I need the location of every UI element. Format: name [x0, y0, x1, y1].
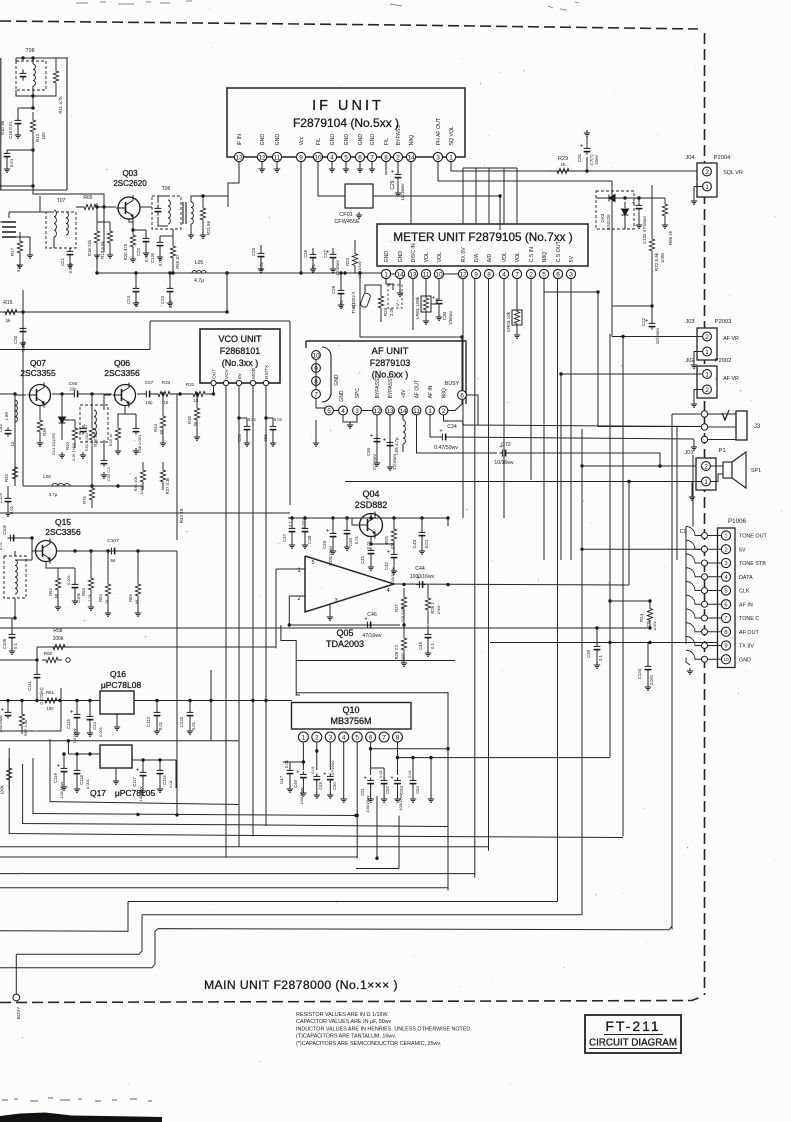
capacitor C29 10/16wv [395, 171, 402, 180]
svg-text:μPC78L05: μPC78L05 [115, 788, 156, 798]
svg-text:12: 12 [459, 271, 467, 278]
ground under C52 [381, 796, 387, 802]
svg-text:13: 13 [386, 408, 394, 415]
wire net step to H692 [281, 625, 300, 695]
svg-text:68: 68 [134, 599, 139, 604]
wire vertical 672 long [671, 414, 673, 930]
capacitor C136 0.01 [157, 239, 164, 248]
wire Q16 box left [60, 688, 62, 731]
ground under R20 [130, 256, 136, 262]
svg-text:C117: C117 [132, 776, 137, 786]
wire AF pin2 hook [448, 399, 462, 410]
wire [0, 393, 15, 395]
svg-text:R35 1k: R35 1k [108, 434, 113, 447]
svg-text:C47: C47 [279, 775, 284, 784]
wire vcc drop [226, 273, 228, 312]
svg-text:+: + [383, 438, 387, 444]
ground under C41 [368, 564, 374, 570]
svg-text:TDA2003: TDA2003 [326, 639, 364, 649]
wire IF pin10 to CF01 [318, 162, 345, 196]
resistor R76 [89, 480, 94, 508]
svg-text:A/D: A/D [487, 253, 493, 262]
node circle J3 ring [701, 424, 707, 430]
wire 377 stub [376, 796, 378, 860]
svg-text:GND: GND [339, 390, 345, 402]
svg-text:2SC3355: 2SC3355 [20, 368, 56, 378]
METER UNIT pin 6 [553, 269, 562, 278]
svg-text:8: 8 [384, 154, 388, 161]
svg-text:L06 4.7μ: L06 4.7μ [394, 437, 399, 455]
wire IF pin9 Vcc down [300, 162, 302, 273]
svg-text:L07: L07 [83, 424, 88, 432]
svg-text:C24: C24 [126, 295, 131, 304]
wire to J3 tip [672, 413, 701, 415]
resistor R45 1k [12, 460, 17, 486]
svg-text:1k: 1k [104, 600, 109, 604]
svg-text:13: 13 [235, 154, 243, 161]
potentiometer VR03 10k [512, 310, 522, 325]
wire J02 pin2 gnd [694, 390, 703, 402]
wire [39, 196, 41, 212]
wire C46 feedback row [289, 624, 400, 626]
svg-text:F2879104 (No.5xx ): F2879104 (No.5xx ) [293, 116, 399, 130]
ground under R55 [135, 610, 141, 616]
svg-text:L09: L09 [4, 412, 9, 420]
ground under C22q [143, 250, 149, 256]
svg-text:2SD882: 2SD882 [355, 500, 388, 510]
capacitor C54 0.01 [410, 777, 417, 786]
inductor in Q15 box [15, 560, 17, 594]
ground J3 [691, 444, 697, 450]
IF UNIT pin 14 [406, 152, 415, 161]
wire [33, 92, 56, 96]
ground under C132 [636, 222, 642, 228]
resistor R18 22k [94, 222, 99, 252]
Q10 pin 2 [312, 732, 322, 742]
svg-text:1/4W: 1/4W [652, 621, 657, 631]
ground under R18 [94, 252, 100, 258]
svg-text:R24: R24 [639, 613, 644, 622]
wire [104, 206, 116, 208]
svg-text:C31: C31 [577, 153, 582, 162]
wire [438, 307, 440, 314]
wire [386, 279, 393, 290]
svg-text:R30: R30 [187, 415, 192, 424]
svg-text:+: + [370, 434, 374, 440]
ground under C24 [133, 300, 139, 306]
wire [14, 598, 16, 618]
wire [91, 394, 93, 420]
wire [145, 244, 147, 250]
transformer core T08b [183, 202, 186, 224]
svg-text:Q04: Q04 [362, 489, 379, 499]
svg-text:11: 11 [423, 271, 430, 278]
ground under C54 [410, 796, 416, 802]
node circle P1006 pin 5 [702, 588, 708, 594]
svg-text:2: 2 [705, 334, 709, 341]
svg-text:C22: C22 [641, 317, 646, 326]
wire 486 rail [23, 485, 143, 487]
wire [380, 316, 382, 322]
svg-text:MOD: MOD [251, 367, 257, 379]
svg-text:2: 2 [704, 463, 708, 470]
capacitor C118 0.001 [74, 767, 81, 776]
svg-text:3: 3 [436, 154, 440, 161]
AF UNIT pin 5 [325, 406, 334, 415]
ground under C29 [395, 190, 401, 196]
svg-text:8: 8 [487, 271, 491, 278]
AF UNIT pin 1 [426, 406, 435, 415]
svg-text:C136: C136 [150, 252, 155, 263]
svg-text:R69 10: R69 10 [175, 255, 180, 269]
meter unit F2879105 box [377, 224, 588, 266]
wire vertical 582 long [581, 429, 583, 915]
wire [16, 236, 30, 238]
wire VCO outer box top [150, 320, 290, 322]
ground under C39 [330, 548, 336, 554]
wire [345, 162, 347, 166]
svg-text:C26: C26 [303, 249, 308, 258]
IF UNIT pin 9 [296, 152, 305, 161]
wire R72 top [651, 185, 653, 228]
wire H660 texture [296, 660, 455, 662]
vco unit F2868101 box [200, 329, 280, 383]
svg-text:C45: C45 [418, 641, 423, 650]
svg-text:R72 5.6k: R72 5.6k [654, 252, 659, 271]
svg-text:1/4W: 1/4W [139, 485, 144, 495]
ground under C27 [330, 266, 336, 272]
wire 349 rail [0, 349, 150, 351]
IF UNIT pin 4 [327, 152, 336, 161]
svg-text:N8Q: N8Q [442, 388, 448, 398]
svg-text:Q17: Q17 [90, 788, 106, 798]
connector J03/P2003 [697, 328, 717, 360]
P1006 pin 9 TX 8V [721, 641, 730, 650]
wire meter pin5 to J02 branch [544, 279, 598, 292]
diode DX3 1S3226 dashed box [596, 191, 634, 229]
ground under C25 [258, 266, 264, 272]
svg-text:+: + [439, 429, 443, 435]
svg-text:CLK: CLK [739, 589, 750, 595]
svg-text:1S3226: 1S3226 [606, 214, 611, 230]
wire Q04 emitter [370, 537, 372, 545]
wire left col [14, 395, 16, 486]
capacitor C37 0.1 [289, 525, 296, 534]
wire left 23 col [22, 312, 24, 486]
wire [103, 207, 105, 252]
capacitor C43 0.01 [419, 529, 426, 538]
capacitor C125 0.01 [5, 495, 12, 504]
P1006 pin 7 TONE C [721, 613, 730, 622]
capacitor C39b 0.1 [594, 643, 601, 652]
wire [191, 196, 203, 202]
AF UNIT pin 9 [312, 364, 321, 373]
node circle P1006 pin 3 [702, 560, 708, 566]
capacitor C40 0.01 [344, 527, 351, 536]
svg-text:R76: R76 [82, 495, 87, 503]
svg-text:R25: R25 [384, 535, 389, 543]
ground under R54 [105, 610, 111, 616]
resistor R24 27k 1/4W [647, 601, 652, 628]
wire [624, 215, 626, 229]
wire [80, 393, 112, 395]
wire vertical 612 AF VR [611, 181, 613, 337]
wire bus MOD down [252, 386, 254, 837]
capacitor C45 0.1 [425, 631, 432, 640]
capacitor C30 1/50wv [436, 297, 443, 306]
resistor R65 0 [76, 204, 104, 209]
wire Q06 base [104, 395, 111, 410]
ground J02 [691, 401, 697, 407]
transistor Q15 2SC3356 [34, 539, 57, 564]
svg-text:0.01: 0.01 [158, 721, 163, 730]
svg-text:C118: C118 [79, 774, 84, 784]
svg-text:Q05: Q05 [336, 628, 353, 638]
connector J04/P2004 [697, 163, 717, 197]
svg-text:VR01 100k: VR01 100k [415, 296, 420, 319]
svg-text:CIRCUIT DIAGRAM: CIRCUIT DIAGRAM [589, 1038, 677, 1049]
capacitor C44 1000/16wv [416, 581, 425, 588]
resistor R69 10 [170, 236, 175, 268]
wire [371, 162, 373, 166]
svg-text:R58: R58 [53, 628, 62, 634]
resistor R37 3.3k [160, 462, 165, 490]
inductor in T07 [54, 210, 56, 237]
ground under C39b [594, 662, 600, 668]
svg-text:R45: R45 [4, 473, 9, 481]
svg-text:C134: C134 [637, 668, 642, 679]
svg-text:4.7μ: 4.7μ [49, 492, 58, 497]
ground under C28 [338, 302, 344, 308]
scan artifact black wedge bottom left [0, 1113, 162, 1122]
svg-text:18: 18 [194, 398, 199, 403]
svg-text:BYPASS1: BYPASS1 [388, 376, 394, 399]
svg-text:12: 12 [373, 408, 381, 415]
svg-text:R26 1: R26 1 [430, 602, 435, 614]
wire [611, 202, 613, 229]
svg-text:4: 4 [341, 408, 345, 415]
wire Q15 base row [8, 537, 32, 539]
svg-text:DX3: DX3 [600, 213, 605, 222]
wire to J02 pin1b [561, 373, 703, 375]
svg-text:C50: C50 [332, 781, 337, 789]
wire T08b to IF pin13 path [203, 196, 228, 207]
svg-text:5: 5 [724, 589, 727, 595]
wire [664, 197, 666, 199]
ground under IF pin x=360 [357, 166, 363, 172]
svg-text:10/16wv: 10/16wv [400, 183, 405, 201]
wire bus H857 [0, 856, 357, 858]
svg-text:CAPACITOR VALUES ARE IN μF, 50: CAPACITOR VALUES ARE IN μF, 50wv [296, 1019, 392, 1025]
ground P1006 GND pin [687, 668, 693, 674]
METER UNIT pin 7 [512, 269, 521, 278]
ground under C50 [327, 792, 333, 798]
svg-text:0.022(er): 0.022(er) [39, 687, 44, 705]
ground under C118 [74, 786, 80, 792]
ground under C35 [387, 464, 393, 470]
ground under IF pin x=277 [274, 166, 280, 172]
svg-text:N8Q: N8Q [542, 252, 548, 263]
svg-text:+: + [57, 764, 61, 770]
Q10 pin 8 [393, 732, 403, 742]
svg-text:T08: T08 [26, 48, 35, 54]
capacitor C56 0.01 [244, 423, 251, 432]
wire Q17 box bottom [50, 741, 239, 805]
svg-text:2SC3356: 2SC3356 [45, 527, 81, 537]
svg-text:IF IN: IF IN [237, 134, 243, 145]
resistor R85 1k [662, 198, 667, 222]
RF transformer far-left [2, 222, 16, 237]
AF UNIT pin 7 [312, 390, 321, 399]
resistor R29 1k [548, 168, 578, 173]
wire [708, 590, 722, 592]
wire meter pin4 down [503, 279, 505, 518]
ground under C115 [74, 730, 80, 736]
svg-text:R87 3.3k: R87 3.3k [23, 720, 28, 736]
potentiometer VR01 100k [421, 296, 431, 312]
svg-text:VCO UNIT: VCO UNIT [218, 334, 262, 344]
wire bus 5V down (x557) [557, 279, 559, 902]
wire Q16 output rail [134, 700, 292, 702]
capacitor in T08b [155, 204, 162, 215]
wire J01 pin1 to SP1 [711, 474, 723, 482]
svg-text:+: + [70, 710, 74, 716]
IF UNIT pin 7 [367, 152, 376, 161]
capacitor C50 47/16wv [327, 773, 334, 782]
wire [708, 535, 722, 537]
main unit boundary right dashed [704, 33, 706, 995]
svg-text:1: 1 [302, 734, 306, 741]
ground under R85 [662, 222, 668, 228]
capacitor C35 22/16wv [387, 439, 394, 448]
wire [444, 273, 458, 275]
svg-text:100/16wv: 100/16wv [0, 715, 3, 732]
wire [8, 212, 10, 218]
VCO pin OUT [211, 380, 216, 385]
scan noise top [76, 1, 579, 10]
svg-text:BUSY: BUSY [445, 381, 460, 387]
svg-text:4: 4 [342, 734, 346, 741]
wire [365, 285, 381, 293]
VCO pin 8V [236, 380, 241, 385]
P1006 pin 8 AF OUT [721, 627, 730, 636]
svg-text:47/16wv: 47/16wv [362, 633, 382, 639]
wire R72 bottom [651, 262, 653, 306]
capacitor C113 0.01 [154, 709, 161, 718]
wire C72 line to J01 pin2 [508, 453, 702, 466]
svg-text:0.01: 0.01 [310, 765, 315, 774]
wire vertical 677 [676, 427, 678, 560]
svg-text:10/16wv: 10/16wv [655, 327, 660, 344]
svg-text:C44: C44 [415, 566, 425, 572]
wire [96, 207, 98, 222]
ground under IF pin x=372 [369, 166, 375, 172]
svg-text:+: + [1, 708, 5, 714]
svg-text:47/16wv: 47/16wv [330, 761, 335, 776]
resistor R19 6.8k [107, 222, 112, 252]
wire Q17 box top [0, 740, 239, 742]
wire [32, 140, 34, 186]
wire [596, 197, 665, 199]
wire [91, 448, 93, 480]
svg-text:Q16: Q16 [110, 669, 126, 679]
wire bus L4 [9, 748, 623, 838]
svg-text:C60: C60 [69, 381, 78, 386]
wire [425, 312, 427, 318]
svg-text:F2879103: F2879103 [370, 358, 411, 368]
wire [376, 415, 378, 452]
svg-text:L05: L05 [195, 260, 204, 266]
svg-text:R53: R53 [81, 587, 86, 595]
svg-text:C16 0.01: C16 0.01 [8, 121, 13, 139]
ground under C136 [157, 254, 163, 260]
node circle P1006 pin 2 [702, 546, 708, 552]
svg-text:9: 9 [724, 644, 727, 650]
resistor R20 470 [130, 226, 135, 256]
wire to J02 pin1 [598, 292, 699, 427]
svg-text:FT-211: FT-211 [605, 1018, 660, 1034]
svg-text:R10 98: R10 98 [0, 120, 5, 135]
svg-text:0.001: 0.001 [85, 778, 90, 789]
wire [69, 248, 71, 249]
wire VCO outer box left [149, 321, 151, 350]
wire [638, 212, 640, 222]
capacitor C49 0.01 [313, 773, 320, 782]
check mark near J3 [722, 410, 729, 420]
wire AF pin11 to C72 [417, 415, 498, 453]
svg-text:0.01: 0.01 [248, 417, 257, 422]
svg-text:C25: C25 [251, 247, 256, 256]
ground under C21 [67, 262, 73, 268]
svg-text:1: 1 [449, 154, 453, 161]
svg-text:AF VR: AF VR [723, 336, 739, 342]
wire top link meter feeders [463, 167, 517, 169]
svg-text:0.01: 0.01 [9, 158, 14, 167]
node circle J3 tip [701, 411, 707, 417]
svg-text:0.01: 0.01 [284, 759, 289, 768]
svg-text:GND: GND [344, 134, 350, 146]
wire meter pin5 down [543, 279, 545, 560]
svg-text:C72: C72 [501, 442, 511, 448]
wire H868 seg [356, 868, 399, 870]
svg-text:1: 1 [705, 184, 709, 191]
svg-text:5: 5 [344, 154, 348, 161]
capacitor C105 0.001 on Q15 base [7, 535, 16, 542]
node circle P1006 pin 4 [702, 574, 708, 580]
svg-text:4: 4 [386, 588, 389, 594]
svg-text:R54: R54 [98, 593, 103, 601]
ground under C122 [187, 728, 193, 734]
Q10 pin 4 [339, 732, 349, 742]
resistor R12 100 [30, 112, 35, 140]
svg-text:18: 18 [164, 400, 169, 405]
resistor R26 1 1/4W [425, 590, 430, 618]
wire [132, 219, 134, 226]
svg-text:J02: J02 [685, 358, 694, 364]
svg-text:2SC3356: 2SC3356 [104, 368, 140, 378]
svg-text:+: + [432, 296, 436, 302]
svg-text:+: + [326, 529, 330, 535]
svg-text:1/4W: 1/4W [660, 252, 665, 263]
capacitor C20 0.001 [20, 325, 27, 334]
resistor R38 56 [89, 420, 94, 448]
ground under C125 [5, 510, 11, 516]
wire [33, 186, 104, 207]
ground under C58 [133, 448, 139, 454]
METER UNIT pin 14 [395, 269, 404, 278]
svg-text:C111: C111 [27, 681, 32, 691]
wire 757 link [398, 757, 611, 759]
